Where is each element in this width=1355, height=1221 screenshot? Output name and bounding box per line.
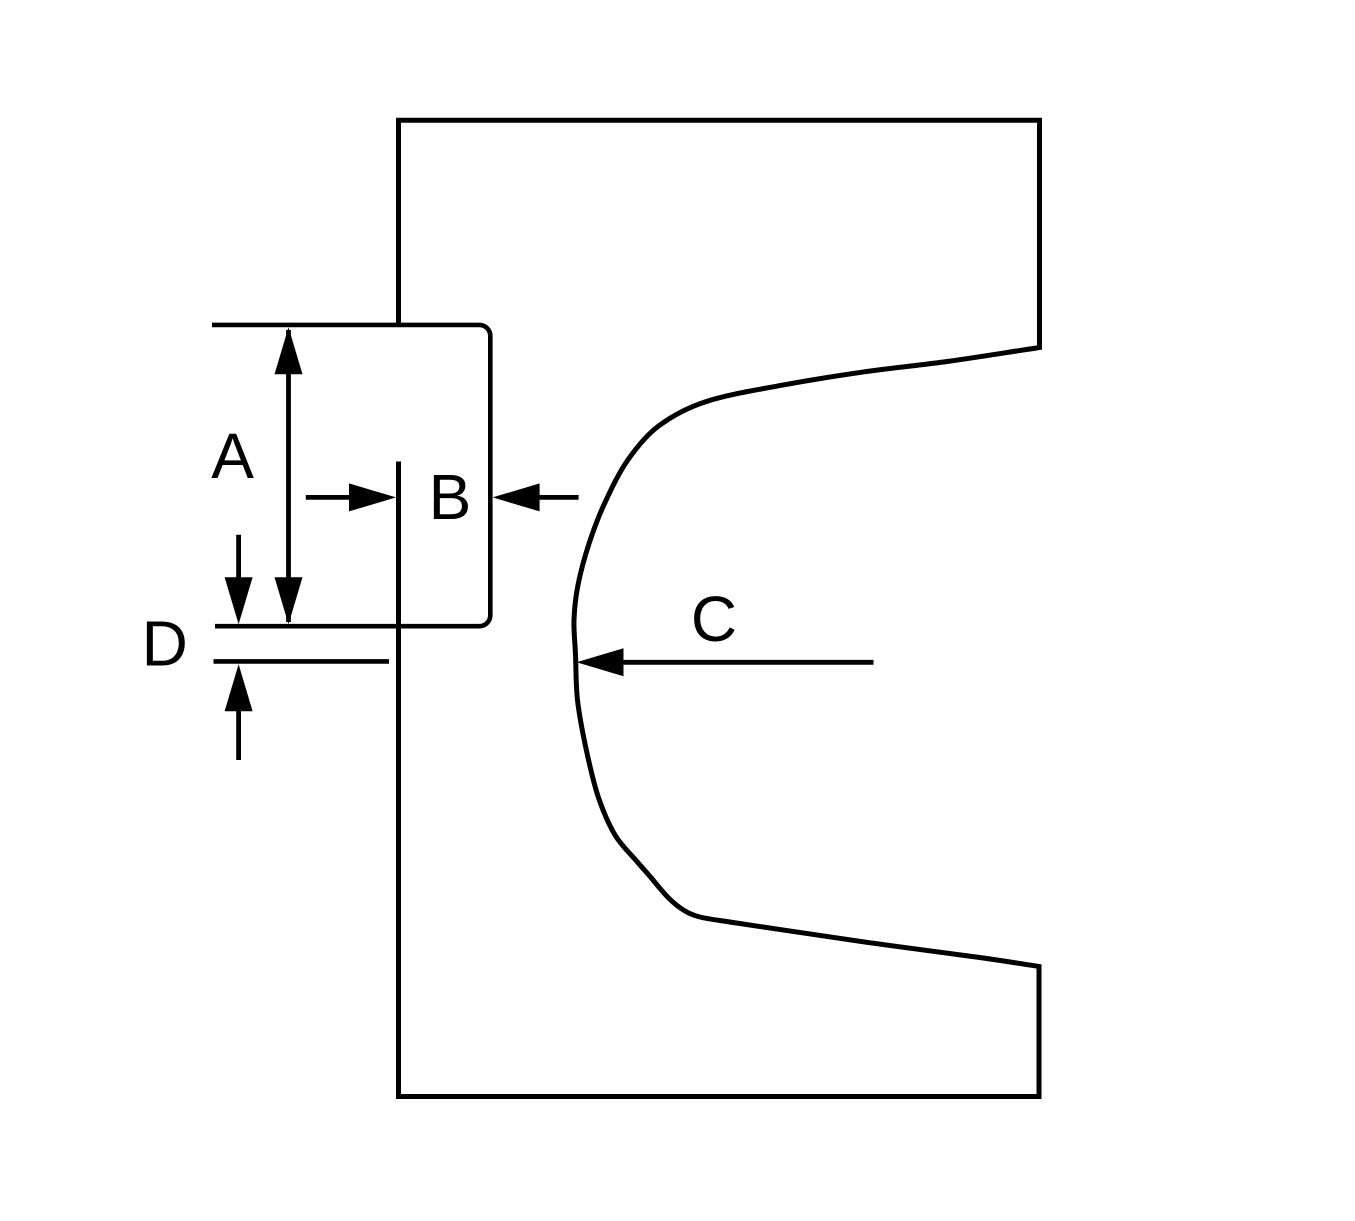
svg-text:B: B [429,461,472,533]
svg-text:C: C [691,583,737,655]
svg-text:A: A [211,420,254,492]
svg-text:D: D [142,608,188,680]
